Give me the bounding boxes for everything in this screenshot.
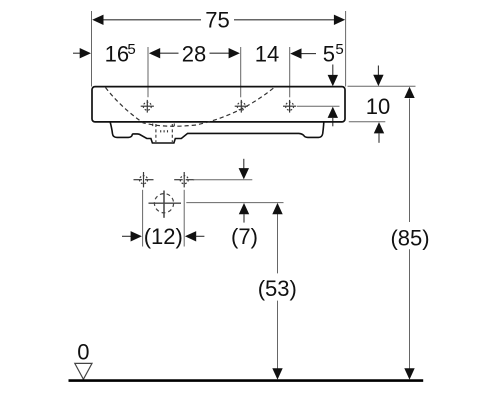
- extension line fixing hole right: [183, 190, 185, 247]
- svg-text:0: 0: [77, 339, 89, 364]
- arrowhead 85 down: [404, 368, 414, 379]
- extension line tap hole 1: [147, 47, 149, 97]
- arrowhead 75 left: [92, 15, 103, 25]
- dimension 16.5 outside arrow tail: [73, 52, 81, 54]
- dimension 10 down arrow tail: [377, 66, 379, 76]
- svg-text:(53): (53): [258, 276, 297, 301]
- overflow hidden dash: [160, 130, 162, 132]
- dimension 10 up arrow tail: [378, 133, 380, 143]
- svg-text:10: 10: [366, 94, 390, 119]
- trap hidden line right: [171, 124, 173, 142]
- svg-text:5: 5: [323, 41, 335, 66]
- extension line fixing hole left: [142, 190, 144, 247]
- reference line tap hole height: [297, 105, 340, 107]
- arrowhead 53 down: [272, 368, 282, 379]
- dimension 7 up arrow tail: [243, 214, 245, 223]
- arrowhead 85 up: [404, 87, 414, 98]
- reference line fixing holes: [193, 179, 252, 181]
- arrowhead 75 right: [334, 15, 345, 25]
- fixing hole cross right: [174, 172, 194, 187]
- datum triangle: [75, 363, 92, 379]
- extension line right edge (75 dim): [345, 11, 347, 87]
- tap hole cross 2: [235, 100, 248, 113]
- drain hidden stub left: [152, 124, 154, 128]
- reference line drain height: [186, 202, 283, 204]
- svg-text:(7): (7): [231, 224, 258, 249]
- dimension line 28: [160, 52, 179, 54]
- trap hidden line left: [155, 124, 157, 142]
- arrowhead 5.5 up: [328, 107, 338, 118]
- dimension 5.5 vertical up arrow tail: [332, 118, 334, 127]
- washbasin apron outline: [110, 122, 324, 143]
- arrowhead 7 down: [239, 168, 249, 179]
- extension line left edge (75 dim): [91, 11, 93, 87]
- tap hole cross 3: [283, 100, 296, 113]
- arrowhead 28 right: [229, 48, 240, 58]
- dimension line 53: [277, 214, 279, 273]
- arrowhead 12 left: [131, 231, 142, 241]
- dimension 14 outside arrow tail: [301, 53, 316, 55]
- arrowhead 7 up: [239, 203, 249, 214]
- arrowhead 28 left: [149, 48, 160, 58]
- dimension line 85: [409, 99, 411, 223]
- arrowhead 12 right: [185, 231, 196, 241]
- arrowhead 14 right outside: [290, 48, 301, 58]
- dimension 12 left tail: [122, 235, 131, 237]
- tap hole cross 1: [141, 100, 154, 113]
- dimension 5.5 vertical down arrow tail: [332, 65, 334, 76]
- reference line basin bottom right: [349, 121, 386, 123]
- svg-text:(12): (12): [144, 224, 183, 249]
- dimension 12 right tail: [196, 235, 205, 237]
- svg-text:5: 5: [335, 41, 343, 58]
- extension line tap hole 3: [289, 47, 291, 97]
- svg-text:(85): (85): [390, 225, 429, 250]
- arrowhead 5.5 down: [328, 75, 338, 86]
- arrowhead 53 up: [272, 203, 282, 214]
- svg-text:14: 14: [255, 41, 279, 66]
- reference line basin top right: [348, 85, 416, 87]
- dimension 7 down arrow tail: [243, 159, 245, 169]
- svg-text:16: 16: [105, 41, 129, 66]
- svg-text:28: 28: [182, 41, 206, 66]
- floor line: [69, 379, 424, 382]
- dimension line 75: [103, 19, 201, 21]
- svg-text:75: 75: [205, 8, 229, 33]
- drain hidden stub right: [173, 124, 175, 128]
- arrowhead 10 up: [374, 122, 384, 133]
- washbasin bowl hidden outline dashed: [106, 87, 275, 126]
- washbasin rim outline: [92, 87, 345, 122]
- arrowhead 16.5: [80, 48, 91, 58]
- arrowhead 10 down: [373, 75, 383, 86]
- extension line tap hole 2: [240, 47, 242, 97]
- drain symbol circle: [149, 191, 182, 218]
- svg-text:5: 5: [127, 41, 135, 58]
- fixing hole cross left: [134, 172, 154, 187]
